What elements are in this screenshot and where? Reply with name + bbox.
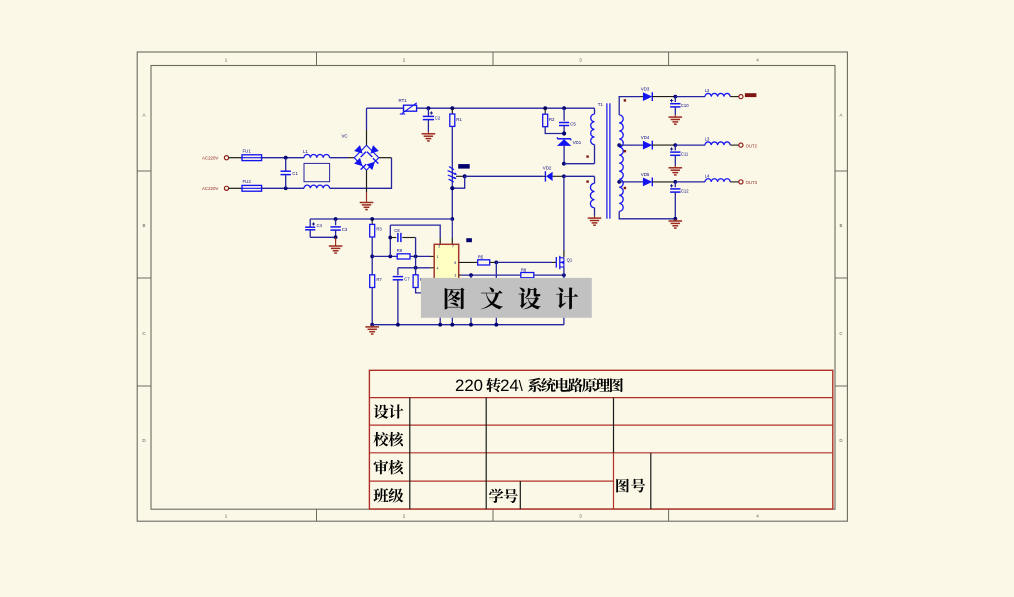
wire opto emitter to node B xyxy=(456,175,465,177)
capacitor C11 xyxy=(670,145,689,166)
capacitor C12 xyxy=(670,182,689,219)
junction node A2 xyxy=(284,186,288,190)
svg-text:C2: C2 xyxy=(435,115,441,120)
junction output node 3 xyxy=(673,180,677,184)
watermark text tu wen she ji xyxy=(445,287,579,309)
junction at C2 xyxy=(427,106,431,110)
svg-text:FU2: FU2 xyxy=(243,179,252,184)
wire tap1 to VD4 xyxy=(619,144,643,146)
svg-text:C11: C11 xyxy=(681,152,689,157)
title block horizontal rules xyxy=(369,398,832,482)
net label OUT3 xyxy=(746,180,758,185)
svg-text:\: \ xyxy=(519,378,524,395)
terminal OUT1 xyxy=(739,95,743,99)
svg-text:L2: L2 xyxy=(705,88,710,93)
svg-text:C12: C12 xyxy=(681,188,689,193)
zone letters left xyxy=(142,113,146,444)
svg-text:C5: C5 xyxy=(570,122,576,127)
svg-text:A: A xyxy=(142,113,145,118)
wire to ground at C3 xyxy=(335,237,337,244)
wire IC bottom pin to rail b xyxy=(451,281,453,325)
net label AC220V line 1 xyxy=(202,156,218,161)
ground at secondary return xyxy=(669,219,683,228)
diode VD2 xyxy=(543,165,564,181)
row label jiao he (check) xyxy=(373,432,403,447)
wire IC pin 7 stub xyxy=(451,219,453,244)
wire IC pin 3 line xyxy=(459,274,521,276)
junction output node 2 xyxy=(673,143,677,147)
resistor R8 xyxy=(521,267,564,277)
svg-text:C8: C8 xyxy=(394,228,400,233)
svg-text:C4: C4 xyxy=(317,223,323,228)
svg-text:FU1: FU1 xyxy=(243,149,252,154)
junction secondary tap 2 xyxy=(617,180,621,184)
capacitor C1 xyxy=(281,158,299,189)
fuse FU2 xyxy=(242,179,262,191)
junction gate node xyxy=(494,261,498,265)
diode VD3 xyxy=(641,86,676,101)
svg-text:C3: C3 xyxy=(342,227,348,232)
svg-text:T1: T1 xyxy=(598,102,604,107)
svg-text:R2: R2 xyxy=(549,117,555,122)
junction secondary tap 1 xyxy=(617,143,621,147)
transformer T1 secondary winding xyxy=(619,115,623,212)
svg-text:VD3: VD3 xyxy=(641,86,650,91)
junction C3 bottom xyxy=(334,235,338,239)
wire tap2 to VD5 xyxy=(619,181,643,183)
capacitor C8 branch xyxy=(388,225,415,256)
capacitor C5 xyxy=(559,108,576,133)
capacitor C10 xyxy=(670,97,689,115)
wire C4 bottom link xyxy=(310,236,335,238)
wire FU1 to node A1 xyxy=(262,157,304,159)
diode VD4 xyxy=(641,135,676,150)
wire clamp node to T1 primary bottom xyxy=(564,163,595,165)
junction C7 at rail xyxy=(396,323,400,327)
junction IC pin b at rail xyxy=(450,323,454,327)
junction at R2 xyxy=(543,106,547,110)
wire FU2 to node A2 xyxy=(262,187,304,189)
wire bridge top vertex to DC rail xyxy=(366,108,368,145)
svg-text:Q1: Q1 xyxy=(567,257,573,262)
title text 220 zhuan 24 system schematic xyxy=(455,376,623,395)
resistor R1 xyxy=(450,108,463,126)
wire RT1 to primary rail xyxy=(417,107,595,109)
wire DC rail to RT1 xyxy=(367,107,404,109)
wire R2 bottom to clamp node xyxy=(545,127,564,134)
row label shen he (review) xyxy=(374,460,404,475)
svg-text:L4: L4 xyxy=(705,174,710,179)
ground at C3 xyxy=(329,244,343,253)
net label OUT2 xyxy=(746,143,758,148)
resistor R7 xyxy=(370,275,383,325)
optocoupler phototransistor xyxy=(448,167,457,183)
svg-text:B: B xyxy=(839,223,842,228)
wire L1 bottom rail to bridge right vertex xyxy=(330,158,392,189)
title block outer border xyxy=(369,370,832,509)
svg-text:AC220V: AC220V xyxy=(202,186,218,191)
junction bottom rail left xyxy=(370,323,374,327)
transformer T1 core xyxy=(607,103,610,218)
junction pin8 node xyxy=(414,266,418,270)
svg-text:AC220V: AC220V xyxy=(202,156,218,161)
svg-text:3: 3 xyxy=(579,514,582,519)
zone letters right xyxy=(839,113,843,444)
row label ban ji (class) xyxy=(373,488,403,502)
wire terminal2 to FU2 xyxy=(229,187,242,189)
svg-text:D: D xyxy=(142,438,146,443)
junction IC pin a at rail xyxy=(438,323,442,327)
wire drain rail down to Q1 xyxy=(563,176,565,257)
svg-text:R6: R6 xyxy=(397,248,403,253)
junction Q1 source node xyxy=(562,273,566,277)
terminal AC input 2 xyxy=(224,186,228,190)
svg-text:VD1: VD1 xyxy=(573,140,582,145)
wire terminal1 to FU1 xyxy=(229,157,242,159)
capacitor C2 xyxy=(423,108,441,131)
svg-text:C1: C1 xyxy=(292,171,298,176)
wire C8 node to IC pin 2 xyxy=(390,225,440,244)
wire L1 top to bridge xyxy=(330,157,355,159)
polarity dot secondary 1 xyxy=(624,99,626,101)
svg-text:B: B xyxy=(142,223,145,228)
svg-text:L1: L1 xyxy=(303,149,308,154)
svg-text:R7: R7 xyxy=(376,277,382,282)
wire node2 to L3 xyxy=(675,144,705,146)
svg-text:VD5: VD5 xyxy=(641,172,650,177)
junction gate branch at rail xyxy=(494,323,498,327)
IC pin numbers xyxy=(437,245,457,278)
bridge rectifier VC xyxy=(342,134,379,171)
wire bridge bottom vertex to ground xyxy=(366,170,368,200)
diode VD5 xyxy=(641,172,676,187)
capacitor C3 xyxy=(330,219,348,237)
thermistor RT1 xyxy=(399,98,417,114)
svg-text:R3: R3 xyxy=(376,226,382,231)
inductor L4 xyxy=(705,174,730,182)
wire node1 to L2 xyxy=(675,96,705,98)
label tu hao (drawing no) xyxy=(616,478,645,492)
junction R6 output node xyxy=(414,255,418,259)
polarity dot primary xyxy=(586,155,588,157)
wire R3 to R7 column xyxy=(371,237,373,275)
label xue hao (student no) xyxy=(489,489,518,503)
junction rail at IC pin7 column xyxy=(450,217,454,221)
inductor L1 common-mode choke xyxy=(303,149,330,189)
wire node B to VD2 xyxy=(465,175,546,177)
svg-text:C: C xyxy=(142,331,146,336)
wire node3 to L4 xyxy=(675,181,705,183)
junction node B xyxy=(463,174,467,178)
zener diode VD1 xyxy=(557,137,582,164)
fuse FU1 xyxy=(242,149,262,161)
junction primary-return node xyxy=(562,162,566,166)
svg-text:1: 1 xyxy=(225,58,228,63)
svg-text:R5: R5 xyxy=(478,255,484,260)
polarity dot secondary 2 xyxy=(624,150,626,152)
transistor Q1 MOSFET xyxy=(556,256,573,269)
svg-text:8: 8 xyxy=(454,261,456,265)
ground at bridge xyxy=(360,200,374,209)
sheet outer border frame xyxy=(137,52,847,521)
svg-text:1: 1 xyxy=(225,514,228,519)
svg-text:RT1: RT1 xyxy=(399,98,408,103)
terminal OUT3 xyxy=(739,180,743,184)
wire IC bottom pin to rail a xyxy=(439,281,441,325)
svg-text:D: D xyxy=(839,438,843,443)
svg-text:R1: R1 xyxy=(456,117,462,122)
junction rail at R3 xyxy=(370,217,374,221)
junction aux node xyxy=(562,174,566,178)
row label she ji (design) xyxy=(374,404,404,418)
wire secondary bottom return xyxy=(619,211,675,218)
svg-text:3: 3 xyxy=(579,58,582,63)
wire gate node to Q1 gate xyxy=(496,261,556,263)
censored IC part number block xyxy=(466,238,472,242)
transformer T1 primary winding xyxy=(591,108,595,164)
zone numbers bottom xyxy=(225,514,760,519)
zone numbers top xyxy=(225,58,760,63)
junction C8 left node xyxy=(388,255,392,259)
title block vertical rules black xyxy=(410,398,651,509)
wire link R6out to pin8 line xyxy=(415,256,417,267)
junction secondary return node xyxy=(673,217,677,221)
wire pin3 branch to rail xyxy=(470,275,472,325)
junction node A1 xyxy=(284,156,288,160)
svg-text:7: 7 xyxy=(452,245,454,249)
resistor R5 xyxy=(459,255,497,265)
zone tick marks right margin xyxy=(835,171,847,386)
watermark box xyxy=(421,278,592,318)
svg-text:C: C xyxy=(839,331,843,336)
svg-text:VD2: VD2 xyxy=(543,165,552,170)
capacitor C4 xyxy=(305,219,323,237)
svg-text:4: 4 xyxy=(437,266,439,270)
svg-text:3: 3 xyxy=(454,274,456,278)
inductor L3 xyxy=(705,137,730,145)
svg-text:OUT2: OUT2 xyxy=(746,143,758,148)
ground at C2 xyxy=(422,132,436,141)
terminal AC input 1 xyxy=(224,156,228,160)
junction rail at C3 xyxy=(334,217,338,221)
junction feedback node on column xyxy=(370,255,374,259)
svg-text:2: 2 xyxy=(438,245,440,249)
wire Vcc rail xyxy=(310,218,452,220)
wire aux node to T1 aux winding xyxy=(564,175,595,177)
resistor R2 xyxy=(543,108,555,127)
wire bottom ground rail xyxy=(372,324,564,326)
junction pin3 node xyxy=(469,273,473,277)
svg-text:C10: C10 xyxy=(681,103,689,108)
ground at aux winding xyxy=(588,216,602,225)
terminal OUT2 xyxy=(739,143,743,147)
junction on opto vertical xyxy=(450,186,454,190)
zone tick marks bottom margin xyxy=(317,509,669,521)
wire R6 input line xyxy=(372,255,397,257)
svg-text:24: 24 xyxy=(500,376,519,395)
svg-text:OUT3: OUT3 xyxy=(746,180,758,185)
wire L2 to OUT1 terminal xyxy=(730,96,739,98)
wire node B bracket to opto vertical xyxy=(452,176,464,188)
zone tick marks left margin xyxy=(137,171,151,386)
svg-text:1: 1 xyxy=(437,255,439,259)
ground at C10 xyxy=(669,115,683,124)
svg-text:L3: L3 xyxy=(705,137,710,142)
IC U1 PWM controller xyxy=(434,244,459,281)
polarity dot secondary 3 xyxy=(624,187,626,189)
title block vertical rule red xyxy=(613,453,615,509)
svg-text:2: 2 xyxy=(403,58,406,63)
wire L4 to OUT3 terminal xyxy=(730,181,739,183)
wire Q1 source to rail corner xyxy=(563,267,565,325)
resistor R6 xyxy=(397,248,410,259)
junction output node 1 xyxy=(673,95,677,99)
svg-text:4: 4 xyxy=(756,514,759,519)
svg-text:C7: C7 xyxy=(404,277,410,282)
junction pin3 branch at rail xyxy=(469,323,473,327)
net label AC220V line 2 xyxy=(202,186,218,191)
svg-text:220: 220 xyxy=(455,376,483,395)
svg-text:VC: VC xyxy=(342,134,348,139)
junction at C5 xyxy=(562,106,566,110)
wire R1 to optocoupler collector xyxy=(451,126,453,219)
polarity dot aux xyxy=(586,180,588,182)
wire L3 to OUT2 terminal xyxy=(730,144,739,146)
resistor R3 xyxy=(370,219,383,237)
censored OUT1 label block xyxy=(745,93,757,97)
zone tick marks top margin xyxy=(317,52,669,66)
transformer T1 aux winding xyxy=(590,176,594,216)
inductor L2 xyxy=(705,88,730,96)
resistor R4 xyxy=(413,268,452,293)
sheet inner border frame xyxy=(151,66,835,510)
ground at C11 xyxy=(669,166,683,175)
wire R6 to IC pin 1 xyxy=(410,255,434,257)
svg-text:VD4: VD4 xyxy=(641,135,650,140)
transformer T1 label xyxy=(598,102,604,107)
censored part label block xyxy=(458,164,470,169)
capacitor C7 xyxy=(393,268,411,325)
svg-text:R8: R8 xyxy=(521,267,527,272)
junction at R1 xyxy=(450,106,454,110)
junction clamp node xyxy=(562,131,566,135)
svg-text:4: 4 xyxy=(756,58,759,63)
wire IC pin 8 line xyxy=(398,267,434,269)
wire gate node branch to rail xyxy=(495,262,497,324)
wire secondary top to VD3 xyxy=(619,97,643,115)
svg-text:A: A xyxy=(839,113,842,118)
ground at bottom rail xyxy=(365,325,379,334)
svg-text:2: 2 xyxy=(403,514,406,519)
